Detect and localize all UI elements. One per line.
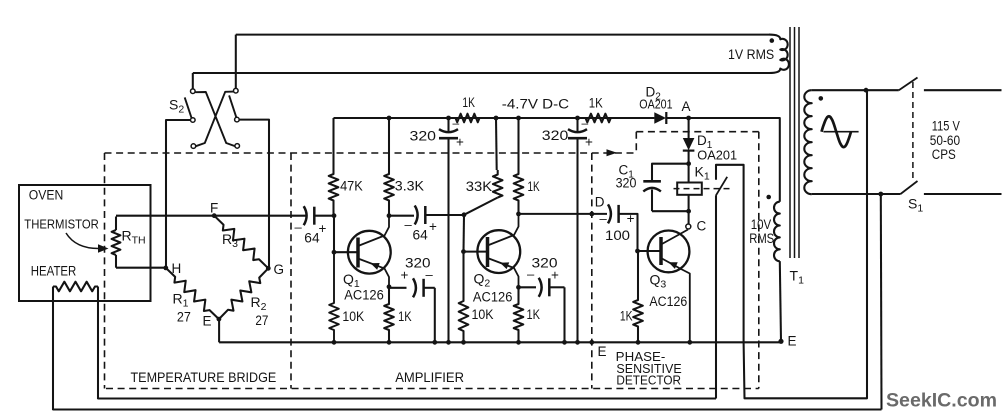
wire decoupling-2 to common rail: [576, 138, 578, 342]
transformer T1 core: [790, 27, 805, 287]
label 115V 50-60 CPS: [930, 119, 960, 162]
transformer T1 winding 10V RMS: [749, 202, 780, 262]
svg-text:1V RMS: 1V RMS: [728, 47, 774, 62]
capacitor 64 interstage coupling: [389, 206, 464, 243]
svg-text:SeekIC.com: SeekIC.com: [886, 390, 997, 412]
resistor 10K Q1: [329, 252, 364, 342]
svg-text:100: 100: [605, 228, 630, 243]
svg-text:AMPLIFIER: AMPLIFIER: [395, 370, 464, 385]
svg-text:320: 320: [616, 176, 637, 191]
svg-text:+: +: [456, 135, 464, 150]
wire S2 top-right up to winding-top wire: [235, 35, 237, 89]
wire thermistor to H: [116, 267, 166, 269]
dashed divider temperature bridge / amplifier: [290, 153, 292, 389]
svg-text:–: –: [600, 211, 608, 226]
svg-text:OA201: OA201: [639, 97, 672, 112]
dashed box temperature-bridge/amplifier enclosure: [105, 153, 759, 389]
relay mechanical link dashed: [674, 188, 730, 190]
wire -4.7V DC rail: [334, 117, 655, 119]
wire E to common rail: [218, 319, 220, 342]
svg-text:10K: 10K: [342, 309, 364, 324]
wire bypass-1 down to rail: [434, 288, 436, 343]
relay contact: [716, 165, 744, 342]
svg-text:AC126: AC126: [473, 290, 513, 305]
svg-text:+: +: [585, 135, 593, 150]
wire 10V winding to rail E: [780, 261, 781, 341]
thermistor pointer arrow: [66, 233, 100, 249]
wire Q2 bias junction down to base: [462, 215, 465, 252]
diode D1 OA201: [683, 118, 737, 164]
svg-text:A: A: [682, 99, 691, 114]
relay coil K1: [677, 164, 710, 212]
svg-text:–: –: [527, 267, 535, 282]
resistor 1K rail left: [449, 114, 497, 123]
resistor R1 bridge arm H-E: [166, 268, 219, 319]
node Q3 emitter on rail: [687, 340, 692, 345]
resistor R3 bridge arm F-G: [214, 216, 268, 269]
node relay coil bottom: [686, 209, 691, 214]
svg-text:C: C: [697, 219, 707, 234]
wire relay contact moving side down: [715, 195, 717, 398]
svg-text:–: –: [582, 116, 589, 130]
transistor Q1 AC126: [334, 216, 391, 303]
wire 115V line B down: [880, 194, 883, 410]
svg-text:50-60: 50-60: [930, 133, 960, 148]
capacitor C1 320: [616, 163, 689, 212]
svg-text:10K: 10K: [472, 307, 494, 322]
svg-text:G: G: [274, 262, 285, 277]
transistor Q3 AC126: [638, 230, 690, 343]
arrow on dashed boundary: [607, 149, 618, 156]
node primary bottom / S1 feed: [878, 192, 883, 197]
svg-text:DETECTOR: DETECTOR: [616, 373, 681, 388]
svg-text:CPS: CPS: [932, 147, 956, 162]
wire heater left lead down: [52, 287, 54, 411]
capacitor 320 rail decoupling 1: [410, 116, 465, 150]
resistor R2 bridge arm E-G: [219, 268, 268, 319]
wire primary bottom lead: [812, 193, 901, 195]
capacitor 320 Q1 emitter bypass: [389, 255, 435, 297]
node Q3 base junction: [635, 249, 640, 254]
svg-text:27: 27: [177, 310, 191, 325]
node G: [266, 266, 271, 271]
node H: [163, 266, 168, 271]
svg-text:OVEN: OVEN: [29, 188, 64, 203]
node C collector terminal: [686, 224, 691, 229]
svg-text:–: –: [453, 116, 460, 130]
svg-text:F: F: [210, 201, 218, 216]
svg-text:OA201: OA201: [697, 148, 737, 163]
transformer T1 winding 1V RMS: [728, 35, 789, 73]
polarity dot 1V winding: [770, 38, 775, 43]
wire Q2 collector to node D: [519, 213, 608, 215]
transistor Q2 AC126: [464, 214, 521, 305]
svg-text:320: 320: [542, 128, 569, 143]
capacitor 100 coupling to Q3: [600, 204, 635, 243]
node Q1 emitter: [387, 284, 392, 289]
wire common rail E: [219, 341, 781, 343]
svg-text:–: –: [426, 267, 434, 282]
wire S2 top-left up to winding-bottom wire: [192, 73, 194, 89]
transformer T1 primary winding: [804, 90, 811, 194]
svg-text:E: E: [203, 314, 212, 329]
node E phase detector boundary: [589, 340, 594, 345]
node D: [589, 212, 594, 217]
capacitor 320 rail decoupling 2: [542, 116, 593, 150]
svg-text:+: +: [319, 221, 327, 236]
wire primary top lead: [812, 89, 899, 91]
wire coil bottom to collector C: [688, 211, 690, 224]
resistor 33K: [464, 118, 503, 215]
svg-text:+: +: [551, 268, 559, 283]
wire heater bottom to right (115V side B): [53, 408, 882, 410]
svg-text:–: –: [295, 220, 303, 235]
svg-text:+: +: [401, 268, 409, 283]
wire heater to relay contact: [98, 397, 716, 399]
svg-text:320: 320: [410, 128, 437, 143]
wire S2 pole-right to bridge G: [239, 120, 269, 269]
resistor 47K: [329, 118, 363, 216]
svg-text:D: D: [595, 195, 605, 210]
svg-text:HEATER: HEATER: [31, 264, 77, 279]
switch S1 top pole: [899, 78, 1002, 91]
svg-text:3.3K: 3.3K: [395, 178, 424, 193]
wire cap to Q1 base node: [314, 215, 334, 217]
node Q2 collector: [516, 212, 521, 217]
svg-text:AC126: AC126: [344, 287, 384, 302]
resistor 1K rail right: [578, 114, 655, 123]
svg-text:E: E: [788, 334, 797, 349]
capacitor 320 Q2 emitter bypass: [519, 256, 565, 297]
wire decoupling-1 to common rail: [447, 138, 449, 342]
resistor 10K Q2: [459, 252, 494, 343]
wire relay fixed side down to 115V feed: [744, 90, 867, 398]
node Q1 bias junction: [332, 213, 337, 218]
node Q2 emitter: [516, 285, 521, 290]
svg-text:THERMISTOR: THERMISTOR: [24, 217, 99, 232]
resistor 1K Q2 collector: [514, 118, 540, 214]
dashed box phase-sensitive detector: [592, 132, 759, 389]
svg-text:1K: 1K: [589, 95, 603, 110]
wire bias junction down to base: [333, 216, 335, 253]
node E transformer end: [778, 339, 783, 344]
wire 1V winding top (A): [236, 34, 769, 36]
polarity dot primary: [819, 96, 824, 101]
svg-text:–: –: [405, 217, 413, 232]
svg-text:1K: 1K: [398, 309, 412, 324]
wire bypass-2 down to rail: [563, 287, 565, 342]
svg-text:RMS: RMS: [749, 231, 774, 246]
node relay coil top: [686, 161, 691, 166]
switch S2: [169, 88, 240, 148]
wire 1V winding bottom (B): [193, 72, 769, 74]
svg-text:+: +: [429, 219, 437, 234]
svg-text:-4.7V D-C: -4.7V D-C: [502, 97, 570, 112]
node A: [686, 116, 691, 121]
AC source sine symbol: [822, 116, 859, 147]
node primary top / S1 feed: [864, 88, 869, 93]
wire cap 100 to Q3 base: [619, 214, 638, 251]
svg-text:1K: 1K: [462, 95, 475, 110]
svg-text:AC126: AC126: [649, 294, 687, 309]
svg-text:10V: 10V: [751, 217, 772, 232]
wire F node horizontal: [116, 215, 306, 217]
svg-text:1K: 1K: [527, 307, 541, 322]
resistor 1K Q1 emitter: [384, 287, 411, 343]
wire heater right lead down: [97, 287, 99, 400]
svg-text:TEMPERATURE BRIDGE: TEMPERATURE BRIDGE: [131, 370, 277, 385]
wire S2 pole-left to bridge H: [166, 120, 191, 268]
node F: [212, 213, 217, 218]
svg-text:64: 64: [413, 228, 429, 243]
svg-text:33K: 33K: [466, 179, 492, 194]
capacitor 64 input coupling: [295, 206, 327, 245]
svg-text:115 V: 115 V: [932, 119, 960, 134]
svg-text:27: 27: [255, 313, 268, 328]
svg-text:1K: 1K: [620, 308, 633, 323]
resistor 1K Q3 base: [620, 251, 643, 342]
wire node A to 10V winding: [689, 118, 780, 202]
diode D2 OA201: [639, 85, 688, 125]
node Q2 bias junction: [462, 212, 467, 217]
node Q1 collector: [387, 213, 392, 218]
resistor 3.3K: [384, 118, 424, 216]
switch S1 bottom pole: [901, 181, 1002, 215]
svg-text:47K: 47K: [340, 178, 363, 193]
S1 mechanical link dashed: [912, 82, 914, 179]
svg-text:1K: 1K: [528, 179, 540, 194]
resistor 1K Q2 emitter: [514, 287, 540, 342]
heater resistor: [53, 282, 98, 292]
thermistor R_TH: [112, 217, 146, 268]
label PHASE-SENSITIVE DETECTOR: [616, 349, 682, 388]
polarity dot 10V winding: [766, 195, 771, 200]
node E bridge: [217, 317, 222, 322]
svg-text:E: E: [598, 344, 607, 359]
oven enclosure box: [19, 185, 151, 301]
